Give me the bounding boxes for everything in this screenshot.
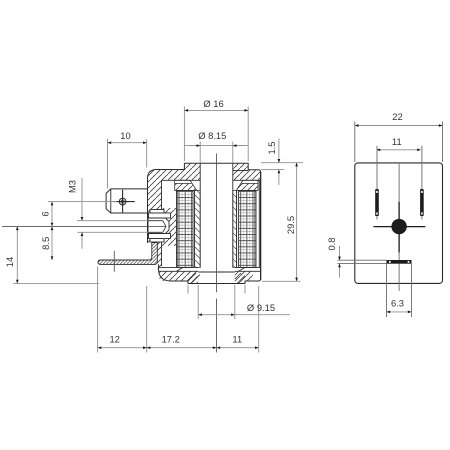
svg-text:11: 11 — [392, 136, 402, 147]
svg-text:6: 6 — [39, 211, 50, 216]
svg-text:11: 11 — [232, 334, 242, 345]
svg-text:6.3: 6.3 — [391, 298, 404, 309]
svg-text:1.5: 1.5 — [266, 141, 277, 154]
svg-text:M3: M3 — [67, 180, 78, 193]
svg-text:14: 14 — [4, 257, 15, 267]
svg-text:Ø 16: Ø 16 — [203, 98, 223, 109]
svg-text:Ø 8.15: Ø 8.15 — [198, 130, 226, 141]
svg-text:Ø 9.15: Ø 9.15 — [247, 302, 275, 313]
svg-text:22: 22 — [392, 111, 402, 122]
svg-text:29.5: 29.5 — [285, 216, 296, 234]
svg-text:8.5: 8.5 — [40, 237, 51, 250]
svg-text:12: 12 — [109, 334, 119, 345]
svg-text:10: 10 — [120, 130, 130, 141]
svg-text:0.8: 0.8 — [326, 237, 337, 250]
svg-text:17.2: 17.2 — [162, 334, 180, 345]
